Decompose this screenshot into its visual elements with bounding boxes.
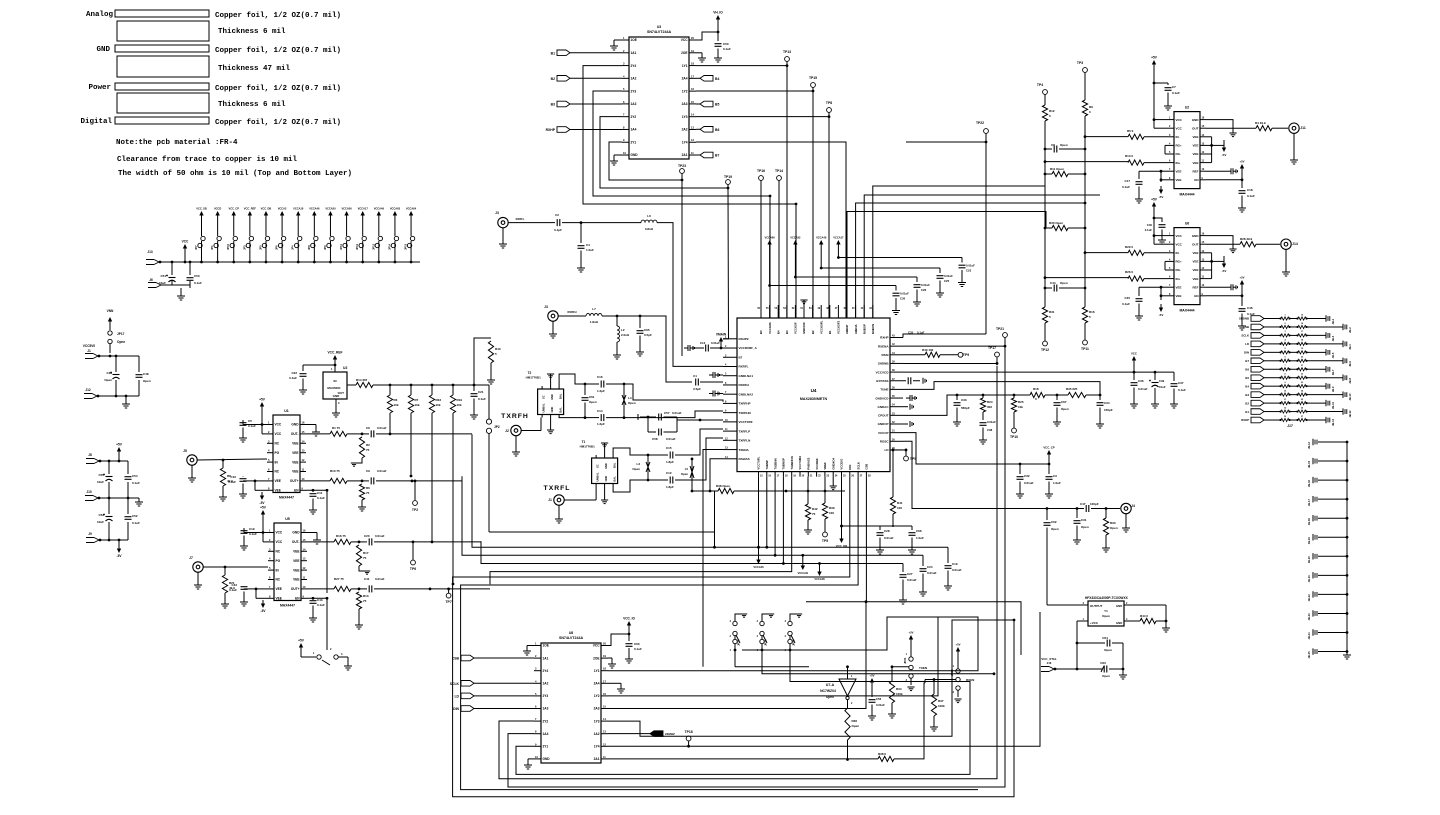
svg-text:VCCA17: VCCA17 bbox=[833, 236, 844, 240]
svg-text:2.0nH: 2.0nH bbox=[621, 333, 629, 337]
wire 1Y3 / test point TP8 bbox=[696, 101, 832, 318]
connector J17 row B4 bbox=[1245, 382, 1335, 392]
transformer T2 box bbox=[526, 371, 564, 415]
U4 pin 4 RXRFL bbox=[723, 363, 749, 368]
wire 2Y4 bus bbox=[583, 66, 797, 318]
wire SHDNB / test point TP17 bbox=[903, 346, 999, 365]
wire R12 to U2 IN+ bbox=[1044, 149, 1128, 163]
svg-text:VCCTXRF: VCCTXRF bbox=[739, 420, 753, 424]
svg-text:0.01uF: 0.01uF bbox=[1024, 481, 1034, 485]
svg-text:VCCA49: VCCA49 bbox=[374, 207, 385, 211]
resistor R28 49.9 bbox=[1206, 237, 1280, 247]
svg-text:JB-21: JB-21 bbox=[1307, 575, 1311, 583]
U4 pin 44 RSSI bbox=[881, 352, 903, 357]
svg-text:0.01uF: 0.01uF bbox=[966, 264, 975, 268]
svg-text:2Y2: 2Y2 bbox=[543, 719, 549, 723]
svg-text:OUT+: OUT+ bbox=[290, 479, 299, 483]
svg-text:C67: C67 bbox=[1061, 400, 1067, 404]
resistor R2 75 bbox=[351, 437, 370, 466]
resistor R36 Open bbox=[845, 708, 859, 761]
resistor R6 75 bbox=[358, 484, 370, 511]
U1 pin 7 VEE bbox=[267, 477, 281, 483]
wire RX Q+ bus bbox=[864, 195, 1100, 318]
U8 pin 1 1OE bbox=[534, 642, 549, 648]
svg-text:SN74LVT244A: SN74LVT244A bbox=[647, 30, 672, 34]
svg-text:1Y1: 1Y1 bbox=[682, 64, 688, 68]
svg-text:RG-: RG- bbox=[1176, 152, 1182, 156]
U5 pin 3 NC bbox=[268, 547, 281, 553]
U2 pin 4 RG+ bbox=[1168, 142, 1182, 147]
U3 pin 13 2A2 bbox=[682, 125, 696, 131]
svg-text:B1: B1 bbox=[551, 51, 555, 55]
svg-text:C42: C42 bbox=[231, 583, 237, 587]
svg-text:B2: B2 bbox=[551, 77, 555, 81]
U4 top pin GNDXOF bbox=[800, 305, 806, 334]
U4 top pin VCCXOFL bbox=[818, 305, 824, 334]
wire R9 to U2 IN- bbox=[1085, 136, 1128, 138]
wire 1Y2 bus bbox=[608, 617, 938, 696]
pcb notes bbox=[116, 139, 352, 178]
svg-text:U5: U5 bbox=[285, 517, 290, 521]
svg-text:1A1: 1A1 bbox=[543, 656, 549, 660]
svg-text:R13 0: R13 0 bbox=[1125, 154, 1133, 158]
svg-text:1.2pF: 1.2pF bbox=[597, 422, 605, 426]
svg-text:MAX2830/METN: MAX2830/METN bbox=[800, 397, 828, 401]
connector J17 row B6 bbox=[1245, 365, 1335, 375]
U8 pin 2 1A1 bbox=[534, 654, 549, 660]
svg-text:2Y1: 2Y1 bbox=[543, 745, 549, 749]
connector J17 row LD bbox=[1245, 339, 1352, 350]
svg-text:0.1uF: 0.1uF bbox=[917, 331, 925, 335]
svg-text:R11 Open: R11 Open bbox=[1050, 167, 1064, 171]
svg-text:J4: J4 bbox=[1131, 504, 1135, 508]
power VCCA49 down bbox=[798, 554, 809, 575]
input tag B2 bbox=[551, 76, 622, 82]
sideways cap GNDVCO bbox=[906, 395, 917, 401]
svg-text:GND: GND bbox=[550, 394, 554, 400]
capacitor C8 Open bbox=[1045, 137, 1086, 153]
jumper JP8 / power VCCA46 bbox=[307, 207, 320, 264]
capacitor C21b Open bbox=[1073, 509, 1089, 545]
U1 pin 8 VEE bbox=[267, 486, 281, 492]
power VCC arrow bbox=[1131, 352, 1137, 373]
svg-text:JB-14: JB-14 bbox=[1307, 441, 1311, 449]
svg-text:VCCD: VCCD bbox=[214, 207, 221, 211]
svg-text:0.01uF: 0.01uF bbox=[944, 274, 953, 278]
IC U3 box bbox=[629, 25, 689, 159]
U4 bottom pin TX2BNON bbox=[790, 456, 797, 477]
svg-text:C63: C63 bbox=[1100, 661, 1106, 665]
svg-text:10k: 10k bbox=[394, 403, 399, 407]
U5 pin 9 EN bbox=[295, 594, 307, 600]
output tag B6 bbox=[696, 127, 719, 133]
U4 bottom pin TX2BNN bbox=[773, 458, 780, 477]
svg-text:L6: L6 bbox=[647, 214, 651, 218]
svg-text:-5V: -5V bbox=[1222, 153, 1227, 157]
svg-text:100k: 100k bbox=[938, 704, 945, 708]
svg-text:TP12: TP12 bbox=[1041, 348, 1049, 352]
wire 1Y2 / test point TP15 bbox=[696, 76, 817, 318]
svg-text:VH_IO: VH_IO bbox=[713, 11, 723, 15]
svg-text:C62: C62 bbox=[1051, 520, 1057, 524]
U6 pin 9 EN bbox=[1194, 293, 1206, 298]
svg-text:GND: GND bbox=[550, 407, 554, 413]
wire OUT+ bbox=[306, 480, 330, 482]
U4 top pin VCCXOF2 bbox=[835, 305, 841, 334]
U4 pin 37 BYPASS bbox=[876, 378, 903, 383]
wire U8 1A4 bbox=[508, 346, 1005, 787]
svg-text:BAL: BAL bbox=[613, 476, 617, 482]
svg-text:TP5: TP5 bbox=[822, 539, 828, 543]
connector JB-16 pin bbox=[1307, 477, 1348, 487]
svg-text:+5V: +5V bbox=[116, 443, 123, 447]
U3 pin 1 1OE bbox=[622, 36, 637, 42]
svg-text:B6: B6 bbox=[1245, 367, 1249, 371]
svg-text:HFX333CA4000P-TCXOWXX: HFX333CA4000P-TCXOWXX bbox=[1085, 596, 1129, 600]
U3 pin 9 2Y1 bbox=[622, 138, 636, 144]
svg-text:SHDNB: SHDNB bbox=[1239, 317, 1249, 321]
svg-text:C6: C6 bbox=[366, 426, 370, 430]
resistor R8 49.9 bbox=[219, 460, 233, 501]
svg-text:TP17: TP17 bbox=[988, 346, 996, 350]
wire to U6 IN+ bbox=[1044, 228, 1128, 279]
svg-text:10k: 10k bbox=[1018, 405, 1023, 409]
svg-text:Analog: Analog bbox=[86, 11, 114, 19]
svg-text:VCC5V0: VCC5V0 bbox=[83, 344, 96, 348]
svg-text:J14: J14 bbox=[1292, 242, 1298, 246]
wire 1Y3 bus bbox=[608, 619, 1015, 737]
resistor R33 Open bbox=[1102, 509, 1118, 553]
resistor R23 10k bbox=[429, 384, 441, 413]
capacitor C62 Open bbox=[1044, 509, 1089, 606]
svg-text:IN: IN bbox=[334, 379, 337, 383]
svg-text:75: 75 bbox=[363, 599, 367, 603]
svg-text:0.1uF: 0.1uF bbox=[229, 588, 237, 592]
jumper JP7 / power VCC_SB bbox=[194, 207, 207, 264]
svg-text:JP10: JP10 bbox=[226, 243, 230, 250]
wire TXRFHP to U4 bbox=[624, 384, 723, 402]
jumper JP22 RXEN bbox=[933, 643, 975, 703]
input tag CSB bbox=[452, 655, 534, 661]
wire 2Y1 bus bbox=[609, 142, 682, 180]
wire VCCVCO rail bbox=[903, 371, 1174, 374]
svg-text:VEE: VEE bbox=[1192, 268, 1198, 272]
svg-text:B6: B6 bbox=[715, 128, 719, 132]
svg-text:0.1uF: 0.1uF bbox=[1122, 185, 1130, 189]
svg-text:R18: R18 bbox=[1033, 387, 1039, 391]
svg-text:JB-12: JB-12 bbox=[1348, 410, 1352, 418]
svg-text:R26 0: R26 0 bbox=[1125, 270, 1133, 274]
svg-text:+5V: +5V bbox=[955, 643, 960, 647]
U8 pin 3 2Y4 bbox=[534, 667, 548, 673]
svg-text:J8: J8 bbox=[88, 453, 92, 457]
svg-text:VCCA50: VCCA50 bbox=[325, 207, 336, 211]
svg-text:VCC_CP: VCC_CP bbox=[1043, 446, 1054, 450]
ground on 2OE bbox=[696, 53, 706, 62]
svg-text:TX2BNON: TX2BNON bbox=[790, 456, 794, 469]
svg-text:1.2pF: 1.2pF bbox=[597, 389, 605, 393]
svg-text:VREF: VREF bbox=[823, 462, 827, 470]
power VCC bbox=[182, 240, 189, 264]
U8 pin 5 2Y3 bbox=[534, 692, 548, 698]
wire 2A1 bus / resistor R38b 0 bbox=[608, 683, 925, 762]
svg-text:VCC: VCC bbox=[182, 240, 189, 244]
svg-text:Open: Open bbox=[1051, 527, 1059, 531]
connector JB-17 pin bbox=[1307, 496, 1348, 506]
svg-text:RXBON: RXBON bbox=[871, 324, 875, 334]
U4 pin 29 LD bbox=[885, 447, 904, 452]
svg-text:IN+: IN+ bbox=[1176, 277, 1181, 281]
svg-text:C20: C20 bbox=[364, 534, 370, 538]
power +5V / capacitor C19 bbox=[240, 506, 268, 551]
svg-text:CSB: CSB bbox=[1243, 325, 1249, 329]
svg-text:VMAIN: VMAIN bbox=[716, 333, 727, 337]
resistor R39 100 / test point TP5c bbox=[822, 477, 835, 543]
svg-text:JP8: JP8 bbox=[307, 245, 311, 250]
resistor R30 Open bbox=[1045, 221, 1086, 231]
BNC J11 bbox=[1289, 123, 1306, 164]
U2 pin 3 IN- bbox=[1168, 134, 1180, 139]
capacitor C4 1.0uF bbox=[577, 223, 594, 272]
resistor R10 75 bbox=[330, 469, 363, 484]
U4 bottom pin PABIAS2 bbox=[807, 457, 814, 477]
svg-text:T1: T1 bbox=[582, 440, 586, 444]
U3 pin 8 1A4 bbox=[622, 125, 637, 131]
capacitor C20 0.01uF bbox=[359, 534, 414, 545]
connector J17 row DIN bbox=[1244, 348, 1335, 358]
svg-text:1Y2: 1Y2 bbox=[682, 89, 688, 93]
U5 pin 15 OUT- bbox=[292, 538, 307, 544]
svg-text:JP3: JP3 bbox=[242, 245, 246, 250]
svg-text:C47: C47 bbox=[1080, 502, 1086, 506]
svg-text:JB-23: JB-23 bbox=[1307, 613, 1311, 621]
resistor R1 75 bbox=[330, 426, 363, 437]
svg-text:J1: J1 bbox=[548, 498, 552, 502]
svg-text:1.8pF: 1.8pF bbox=[666, 460, 674, 464]
input tag LD bbox=[454, 693, 534, 699]
svg-text:TP16: TP16 bbox=[757, 169, 765, 173]
svg-text:VCCREF: VCCREF bbox=[815, 458, 819, 470]
svg-text:RG+: RG+ bbox=[1176, 144, 1183, 148]
svg-text:C64: C64 bbox=[1102, 636, 1108, 640]
svg-text:RXRFH: RXRFH bbox=[739, 383, 749, 387]
svg-text:GND: GND bbox=[1116, 621, 1122, 625]
svg-text:10k: 10k bbox=[457, 403, 462, 407]
svg-text:VEE: VEE bbox=[1192, 161, 1198, 165]
test point TP22 bbox=[976, 121, 988, 142]
U3 pin 15 2A3 bbox=[682, 100, 696, 106]
capacitor C33 560pF bbox=[953, 395, 970, 426]
svg-text:-5V: -5V bbox=[1159, 313, 1164, 317]
wire 1Y1 / test point TP13 bbox=[696, 50, 791, 318]
svg-text:SCLK: SCLK bbox=[856, 462, 860, 470]
svg-text:JP2: JP2 bbox=[494, 425, 500, 429]
svg-text:1.8pF: 1.8pF bbox=[666, 485, 674, 489]
svg-text:MAX4447: MAX4447 bbox=[279, 496, 294, 500]
svg-text:IN-: IN- bbox=[1176, 135, 1180, 139]
test point TP23 bbox=[678, 164, 686, 356]
svg-text:VCCTXMX: VCCTXMX bbox=[798, 456, 802, 470]
svg-text:B2: B2 bbox=[1245, 401, 1249, 405]
ground on VCCTXMX bbox=[0, 0, 1, 1]
svg-text:Open: Open bbox=[1104, 648, 1112, 652]
U4 bottom pin CSB bbox=[865, 464, 872, 478]
wire CPOUT network bbox=[903, 394, 958, 416]
svg-text:JB-5: JB-5 bbox=[1331, 352, 1335, 358]
svg-text:JB-2: JB-2 bbox=[1348, 327, 1352, 333]
svg-text:U1: U1 bbox=[284, 409, 289, 413]
ground on U1 GND bbox=[306, 425, 320, 437]
capacitor C67 Open bbox=[1053, 395, 1069, 426]
wire bbox=[99, 539, 128, 542]
U6 pin 4 RG+ bbox=[1168, 258, 1182, 263]
capacitor C1 0.5pF bbox=[693, 374, 723, 391]
svg-text:C54: C54 bbox=[132, 474, 138, 478]
svg-text:NC: NC bbox=[276, 578, 281, 582]
svg-text:VNN: VNN bbox=[107, 309, 114, 313]
svg-text:TXRFLN: TXRFLN bbox=[739, 439, 751, 443]
svg-text:+5V: +5V bbox=[259, 398, 266, 402]
U3 pin 18 1Y1 bbox=[682, 62, 696, 68]
svg-text:JB-6: JB-6 bbox=[1348, 361, 1352, 367]
svg-text:SCLK: SCLK bbox=[1241, 334, 1249, 338]
capacitor C10 bbox=[228, 475, 267, 498]
IC U6 box bbox=[1174, 222, 1200, 313]
svg-text:0.1uF: 0.1uF bbox=[228, 480, 236, 484]
svg-text:VEE: VEE bbox=[1176, 294, 1182, 298]
wire bbox=[98, 355, 139, 358]
wire RX I+ bus bbox=[847, 212, 1046, 319]
svg-text:OUTPUT: OUTPUT bbox=[1090, 604, 1103, 608]
svg-text:VCCA49: VCCA49 bbox=[816, 236, 827, 240]
U4 pin 34 GNDAC bbox=[878, 404, 904, 409]
svg-text:GND: GND bbox=[604, 463, 608, 469]
power VCC_REF bbox=[328, 351, 343, 373]
svg-text:B3: B3 bbox=[1245, 393, 1249, 397]
power VCCA52 rail / capacitor C26 0.01uF bbox=[790, 236, 930, 307]
power VCCA60 rail / capacitor C30 0.01uF bbox=[764, 236, 909, 315]
ground JB bbox=[1343, 652, 1351, 659]
svg-text:VEE: VEE bbox=[276, 587, 282, 591]
svg-text:C19: C19 bbox=[952, 562, 958, 566]
wire U6 VEE join -5V bbox=[1206, 253, 1226, 279]
oscillator Y1 box bbox=[1085, 596, 1129, 626]
IC U2 box bbox=[1174, 106, 1200, 197]
svg-text:C51: C51 bbox=[160, 274, 166, 278]
wire 1Y4 bus / test point TP18 bbox=[608, 612, 1040, 748]
capacitor C34 150pF bbox=[1096, 395, 1113, 428]
svg-text:0.1uF: 0.1uF bbox=[1145, 228, 1153, 232]
svg-text:NC: NC bbox=[276, 550, 281, 554]
wire R7 to OUT+ bbox=[410, 413, 413, 477]
svg-text:Open: Open bbox=[1061, 407, 1069, 411]
U4 pin 14 PABIAS bbox=[723, 456, 750, 461]
svg-text:J16: J16 bbox=[1047, 661, 1052, 665]
svg-text:R44 0: R44 0 bbox=[1140, 614, 1148, 618]
svg-text:C5: C5 bbox=[248, 419, 252, 423]
connector J12 bbox=[84, 388, 99, 399]
svg-text:1A3: 1A3 bbox=[631, 102, 637, 106]
wire U5 OUT+ bbox=[307, 588, 334, 590]
test point TP12 bbox=[1041, 341, 1049, 352]
svg-text:0.01uF: 0.01uF bbox=[1138, 387, 1148, 391]
svg-text:2A2: 2A2 bbox=[682, 128, 688, 132]
capacitor C43 0.1uF bbox=[307, 597, 327, 622]
ground bbox=[172, 281, 190, 300]
svg-text:EN: EN bbox=[294, 489, 299, 493]
svg-text:OUT: OUT bbox=[1192, 126, 1199, 130]
U8 pin 6 1A3 bbox=[534, 705, 549, 711]
ground above T1 bbox=[601, 443, 608, 455]
svg-text:X2BNP: X2BNP bbox=[845, 325, 849, 334]
sideways cap on U6 REF bbox=[1206, 284, 1238, 290]
svg-text:Thickness 6 mil: Thickness 6 mil bbox=[218, 28, 286, 36]
U3 pin 10 GND bbox=[622, 151, 638, 157]
inductor L2 2.0nH bbox=[613, 316, 629, 359]
U2 pin 5 RG- bbox=[1168, 151, 1181, 156]
svg-text:R16: R16 bbox=[1089, 310, 1095, 314]
svg-text:VEE: VEE bbox=[1192, 144, 1198, 148]
svg-text:VCC: VCC bbox=[276, 531, 283, 535]
U2 pin 16 GND bbox=[1192, 117, 1206, 122]
U4 pin 3 B7 bbox=[723, 354, 743, 359]
svg-text:VCC_CP: VCC_CP bbox=[228, 207, 239, 211]
wire VCC bus bbox=[159, 261, 420, 263]
svg-text:R39: R39 bbox=[829, 506, 835, 510]
svg-text:C3: C3 bbox=[1053, 474, 1057, 478]
svg-text:R9: R9 bbox=[1089, 105, 1093, 109]
svg-text:1Y2: 1Y2 bbox=[594, 694, 600, 698]
svg-text:0.1uF: 0.1uF bbox=[1122, 302, 1130, 306]
svg-text:C33: C33 bbox=[961, 398, 967, 402]
inductor L7 1.8nH bbox=[586, 307, 618, 324]
wire IN bus down bbox=[1044, 174, 1087, 229]
U6 pin 16 GND bbox=[1192, 233, 1206, 238]
wire T1 top-right bbox=[613, 448, 649, 456]
svg-text:U3: U3 bbox=[657, 25, 661, 29]
resistor R29 0 bbox=[1125, 245, 1168, 255]
svg-text:1A4: 1A4 bbox=[543, 732, 549, 736]
wire VCCCP bbox=[903, 433, 1050, 466]
U3 pin 20 VCC bbox=[681, 36, 696, 42]
svg-text:GND: GND bbox=[543, 757, 551, 761]
jumper JP19 bbox=[757, 614, 775, 652]
svg-text:300: 300 bbox=[987, 405, 992, 409]
U6 pin 8 VEE bbox=[1168, 293, 1182, 298]
wire JP18 to TXEN bbox=[735, 650, 809, 667]
resistor R14 367 bbox=[356, 378, 489, 388]
svg-text:1A1: 1A1 bbox=[631, 51, 637, 55]
svg-text:C13: C13 bbox=[700, 341, 706, 345]
capacitor C36 0.01uF bbox=[1130, 372, 1148, 408]
capacitor C48 Open bbox=[136, 356, 151, 396]
svg-text:T2: T2 bbox=[528, 371, 532, 375]
svg-text:2A1: 2A1 bbox=[594, 757, 600, 761]
svg-text:TP4: TP4 bbox=[1037, 83, 1043, 87]
power VCC_IO / capacitor C60 bbox=[608, 617, 642, 664]
capacitor C24 0.01uF bbox=[919, 555, 937, 596]
svg-text:+5V: +5V bbox=[869, 674, 874, 678]
svg-text:R12: R12 bbox=[1049, 109, 1055, 113]
U4 top pin VCC1MX bbox=[766, 305, 772, 334]
svg-text:75: 75 bbox=[812, 512, 816, 516]
wire bbox=[99, 460, 128, 463]
svg-text:JP21: JP21 bbox=[903, 657, 907, 664]
svg-text:R28 49.9: R28 49.9 bbox=[1240, 237, 1253, 241]
svg-text:REF: REF bbox=[1193, 285, 1199, 289]
IC U5 box bbox=[274, 517, 301, 608]
svg-text:0.01uF: 0.01uF bbox=[711, 341, 720, 345]
